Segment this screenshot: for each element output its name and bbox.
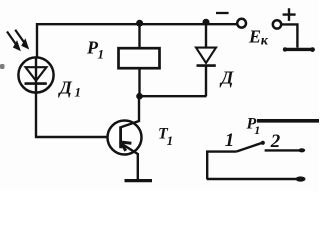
svg-text:1: 1: [98, 47, 105, 62]
svg-text:Е: Е: [248, 26, 261, 46]
svg-text:1: 1: [167, 133, 174, 148]
svg-text:1: 1: [75, 85, 82, 100]
svg-text:Д: Д: [58, 78, 73, 98]
svg-text:2: 2: [270, 131, 281, 152]
svg-text:1: 1: [254, 123, 260, 137]
svg-text:Д: Д: [219, 67, 234, 87]
svg-text:к: к: [261, 34, 269, 49]
svg-text:1: 1: [225, 130, 235, 151]
